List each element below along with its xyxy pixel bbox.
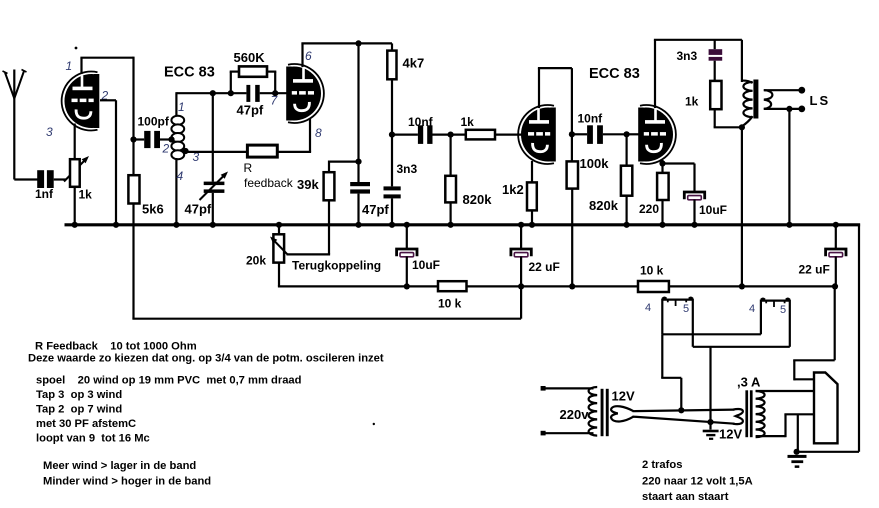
wire V1a anode (pin 1) up and over xyxy=(80,57,133,176)
capacitor 10nf (coupling 2) xyxy=(572,112,627,144)
svg-text:100pf: 100pf xyxy=(138,115,170,129)
resistor 100k (anode load to B+) xyxy=(567,134,610,286)
wire heater return to 12V junction and ground xyxy=(709,347,711,430)
heater filament V2 (pins 4,5) xyxy=(761,299,790,347)
svg-text:10 k: 10 k xyxy=(438,297,462,311)
wire feedback drop from top wire xyxy=(329,43,360,172)
svg-text:ECC 83: ECC 83 xyxy=(164,65,215,81)
junction node detector xyxy=(389,132,395,138)
resistor 39k xyxy=(297,172,334,200)
svg-text:12V: 12V xyxy=(612,389,635,404)
svg-text:3n3: 3n3 xyxy=(677,49,698,63)
capacitor 3n3 (to ground) xyxy=(384,162,418,225)
svg-text:Tap 3 op 3 wind: Tap 3 op 3 wind xyxy=(36,389,122,401)
coil tap 2 junction xyxy=(168,136,174,142)
svg-text:4: 4 xyxy=(177,169,184,183)
capacitor 22 uF (filter) xyxy=(511,225,560,287)
junction node reservoir B+ xyxy=(832,283,838,289)
output transformer T1 primary xyxy=(742,81,753,127)
svg-text:2: 2 xyxy=(162,142,170,156)
junction node grid network right xyxy=(272,90,278,96)
capacitor 10uF (cathode bypass) xyxy=(663,164,728,226)
wire heater pins 4 tie xyxy=(662,333,761,335)
coil L1 (spoel) with taps xyxy=(171,92,184,225)
svg-text:1: 1 xyxy=(66,59,73,73)
svg-text:loopt van 9 tot 16 Mc: loopt van 9 tot 16 Mc xyxy=(36,432,150,444)
junction node V2a anode xyxy=(569,131,575,137)
svg-text:220v: 220v xyxy=(560,407,590,422)
wire V2a anode up and over xyxy=(538,68,572,134)
svg-text:spoel 20 wind op 19 mm PVC: spoel 20 wind op 19 mm PVC met 0,7 mm dr… xyxy=(36,375,302,387)
wire heater supply to 12V winding top xyxy=(661,334,681,410)
junction node secondary to rail xyxy=(786,106,792,112)
junction node anode feedback tap xyxy=(355,40,361,46)
wire grid node along y=93 xyxy=(176,92,246,94)
svg-text:10nf: 10nf xyxy=(408,115,434,129)
svg-text:Minder wind > hoger in de band: Minder wind > hoger in de band xyxy=(43,475,211,487)
junction rail: 22uF 2 xyxy=(833,222,839,228)
resistor 820k (grid leak 1) xyxy=(445,135,492,225)
svg-text:Meer wind > lager in de band: Meer wind > lager in de band xyxy=(43,460,196,472)
junction rail: coil xyxy=(173,222,179,228)
wire ground rail right return xyxy=(797,224,859,452)
junction node feedback mid xyxy=(355,159,361,165)
potentiometer 1k (wiper arrow) xyxy=(64,156,92,202)
capacitor 3n3 (Zobel, purple) xyxy=(677,40,723,81)
capacitor 47pf (grid cap, parallel with 560K) xyxy=(237,85,288,118)
junction node main ground xyxy=(794,449,800,455)
junction node transformer primary bottom xyxy=(739,124,745,130)
svg-text:20k: 20k xyxy=(246,254,266,268)
junction rail: 10uF xyxy=(404,222,410,228)
resistor 10 k (filter 1) xyxy=(438,281,521,310)
antenna xyxy=(3,70,27,180)
svg-text:4: 4 xyxy=(749,303,755,315)
junction node grid V2a xyxy=(448,132,454,138)
wire tube V1a cathode (pin 3) to pot xyxy=(74,124,76,160)
junction node heater feed xyxy=(678,407,684,413)
junction node trimmer top xyxy=(210,90,216,96)
wire 12V windings series lower xyxy=(633,417,735,424)
junction rail: 10uF 2 xyxy=(691,222,697,228)
svg-text:1k: 1k xyxy=(461,115,475,129)
wire B+ riser from rectifier xyxy=(793,286,835,380)
wire 39k bottom crossing rail to pot wiper xyxy=(287,200,331,254)
svg-text:220: 220 xyxy=(639,202,659,216)
svg-text:ECC 83: ECC 83 xyxy=(589,66,640,82)
triode V1b (ECC 83 second half) xyxy=(286,64,324,123)
junction node V2b cathode xyxy=(659,160,665,166)
wire terminals to primary xyxy=(543,387,594,389)
svg-text:Deze waarde zo kiezen dat ong.: Deze waarde zo kiezen dat ong. op 3/4 va… xyxy=(28,353,384,365)
triode V1a (ECC 83 first half) xyxy=(62,72,100,131)
svg-text:4: 4 xyxy=(645,302,651,314)
svg-text:6: 6 xyxy=(305,49,312,63)
svg-text:5: 5 xyxy=(683,303,689,315)
transformer T3 core xyxy=(745,390,752,437)
wire V1b anode (pin 6) to top node xyxy=(301,43,392,67)
junction node primary feed B+ xyxy=(739,283,745,289)
mains transformer T2 terminals xyxy=(541,386,546,391)
svg-text:12V: 12V xyxy=(719,427,742,442)
junction node 22uF B+ xyxy=(518,283,524,289)
svg-text:1k: 1k xyxy=(685,95,699,109)
svg-text:Terugkoppeling: Terugkoppeling xyxy=(292,259,381,273)
wire antenna to C 1nf xyxy=(14,178,37,180)
svg-text:,3 A: ,3 A xyxy=(737,375,761,390)
stray mark top left xyxy=(75,47,78,50)
wire heater pins 5 tie xyxy=(693,346,790,348)
svg-text:LS: LS xyxy=(810,93,831,108)
svg-text:3n3: 3n3 xyxy=(397,162,418,176)
resistor 10 k (filter 2) xyxy=(638,264,836,293)
mains transformer T2 primary 220v xyxy=(589,387,598,436)
wire T3 to rectifier top xyxy=(756,390,814,392)
wire B+ line left section xyxy=(278,285,438,287)
junction node grid V2b xyxy=(624,131,630,137)
resistor 220 xyxy=(639,173,669,225)
junction rail: trimmer xyxy=(210,222,216,228)
svg-text:staart aan staart: staart aan staart xyxy=(642,491,729,503)
svg-text:820k: 820k xyxy=(463,192,493,207)
wire rectifier tap to ground xyxy=(797,414,799,452)
junction node 10uF B+ xyxy=(404,283,410,289)
svg-text:8: 8 xyxy=(315,126,322,140)
ground symbol main xyxy=(788,455,807,468)
junction node 100pf tap xyxy=(130,136,136,142)
main ground rail xyxy=(65,223,861,226)
coil tap 3 junction xyxy=(182,148,188,154)
wire V1a grid (pin 2) down to rail xyxy=(100,100,116,225)
capacitor 47pf (feedback bypass) xyxy=(350,162,389,225)
wire B+ riser to output transformer and anode xyxy=(741,40,743,287)
svg-text:220 naar 12 volt 1,5A: 220 naar 12 volt 1,5A xyxy=(642,475,753,487)
svg-text:820k: 820k xyxy=(589,198,619,213)
svg-text:10uF: 10uF xyxy=(699,203,727,217)
output transformer T1 core xyxy=(753,80,758,119)
svg-text:5k6: 5k6 xyxy=(142,202,164,217)
svg-text:1k: 1k xyxy=(79,188,93,202)
resistor 560K xyxy=(230,50,277,93)
wire B+ line mid section xyxy=(521,285,638,287)
svg-text:10uF: 10uF xyxy=(412,258,440,272)
wire secondary to ground rail xyxy=(788,109,790,225)
svg-text:5: 5 xyxy=(780,304,786,316)
junction rail: LS return xyxy=(786,222,792,228)
wire V2b anode up and over xyxy=(654,40,742,108)
resistor 1k (Zobel) xyxy=(685,81,742,127)
svg-text:10nf: 10nf xyxy=(578,112,604,126)
output transformer T1 secondary xyxy=(764,90,802,109)
capacitor 10uF (filter) xyxy=(397,225,440,287)
wire V1b cathode (pin 8) down xyxy=(309,119,311,152)
wire 12V windings series upper xyxy=(633,410,735,412)
trimmer capacitor 47pf (afstemC) xyxy=(185,93,229,225)
capacitor 22 uF (reservoir) xyxy=(799,225,847,287)
svg-text:10 k: 10 k xyxy=(640,264,664,278)
svg-text:1nf: 1nf xyxy=(35,187,54,201)
mains transformer T2 core xyxy=(601,389,609,436)
svg-text:39k: 39k xyxy=(297,177,319,192)
junction rail: 47pf bypass xyxy=(355,222,361,228)
wire V2b cathode node xyxy=(661,160,663,173)
resistor R feedback xyxy=(186,145,312,190)
resistor 1k2 xyxy=(502,182,537,225)
capacitor 10nf (coupling 1) xyxy=(392,115,451,144)
rectifier block xyxy=(814,373,838,444)
svg-text:R Feedback 10 tot 1000 Ohm: R Feedback 10 tot 1000 Ohm xyxy=(35,341,197,353)
triode V2b (output half) xyxy=(638,105,676,164)
transformer T3 secondary 220 xyxy=(756,391,765,437)
wire to V2b grid xyxy=(627,133,641,135)
junction rail: 220 xyxy=(659,222,665,228)
junction rail: 820k 2 xyxy=(624,222,630,228)
junction rail: 22uF xyxy=(518,222,524,228)
svg-text:1k2: 1k2 xyxy=(502,182,524,197)
capacitor 100pf xyxy=(134,115,172,149)
svg-text:4k7: 4k7 xyxy=(403,56,425,71)
junction node 100k B+ xyxy=(569,283,575,289)
junction node 12V centre xyxy=(707,419,713,425)
svg-text:100k: 100k xyxy=(580,156,610,171)
LS terminal top xyxy=(798,87,805,94)
junction rail: pot 1k xyxy=(72,222,78,228)
12V winding left (heart) xyxy=(611,406,633,421)
svg-text:560K: 560K xyxy=(234,50,266,65)
svg-text:feedback: feedback xyxy=(244,176,294,190)
wire V2a cathode down xyxy=(531,161,533,182)
junction rail: 3n3 xyxy=(389,222,395,228)
wire C 1nf to potentiometer wiper xyxy=(54,178,66,180)
potentiometer 20k Terugkoppeling xyxy=(246,225,381,287)
svg-text:3: 3 xyxy=(46,125,53,139)
junction rail: V1a grid leak xyxy=(113,222,119,228)
resistor 5k6 xyxy=(128,175,163,216)
svg-text:47pf: 47pf xyxy=(237,103,264,118)
junction rail: 1k2 xyxy=(529,222,535,228)
wire T3 bottom to rectifier xyxy=(756,414,814,437)
triode V2a (ECC 83 second tube first half) xyxy=(518,105,556,164)
svg-text:47pf: 47pf xyxy=(362,202,389,217)
resistor 820k (grid leak 2) xyxy=(589,134,632,225)
ground symbol 12V centre xyxy=(703,430,719,440)
svg-text:2 trafos: 2 trafos xyxy=(642,459,682,471)
heater filament V1 (pins 4,5) xyxy=(662,298,693,347)
12V winding right (heart) xyxy=(733,409,743,424)
svg-text:47pf: 47pf xyxy=(185,202,212,217)
svg-text:1: 1 xyxy=(178,100,185,114)
junction rail: 820k xyxy=(448,222,454,228)
junction node grid network left xyxy=(228,90,234,96)
stray mark right of text xyxy=(373,423,375,425)
svg-text:22 uF: 22 uF xyxy=(799,263,830,277)
svg-text:22 uF: 22 uF xyxy=(529,260,560,274)
wire pot bottom to ground rail xyxy=(74,187,76,225)
svg-text:Tap 2 op 7 wind: Tap 2 op 7 wind xyxy=(36,403,122,415)
svg-text:met 30 PF afstemC: met 30 PF afstemC xyxy=(36,418,136,430)
capacitor 1nf xyxy=(35,170,54,201)
resistor 4k7 xyxy=(387,43,424,186)
resistor 1k (grid stopper) xyxy=(451,115,522,139)
wire 5k6 bottom crossing rail down to B+ return line xyxy=(132,204,521,319)
svg-text:R: R xyxy=(244,161,253,175)
junction rail: 20k pot xyxy=(276,222,282,228)
LS terminal bottom xyxy=(798,106,805,113)
